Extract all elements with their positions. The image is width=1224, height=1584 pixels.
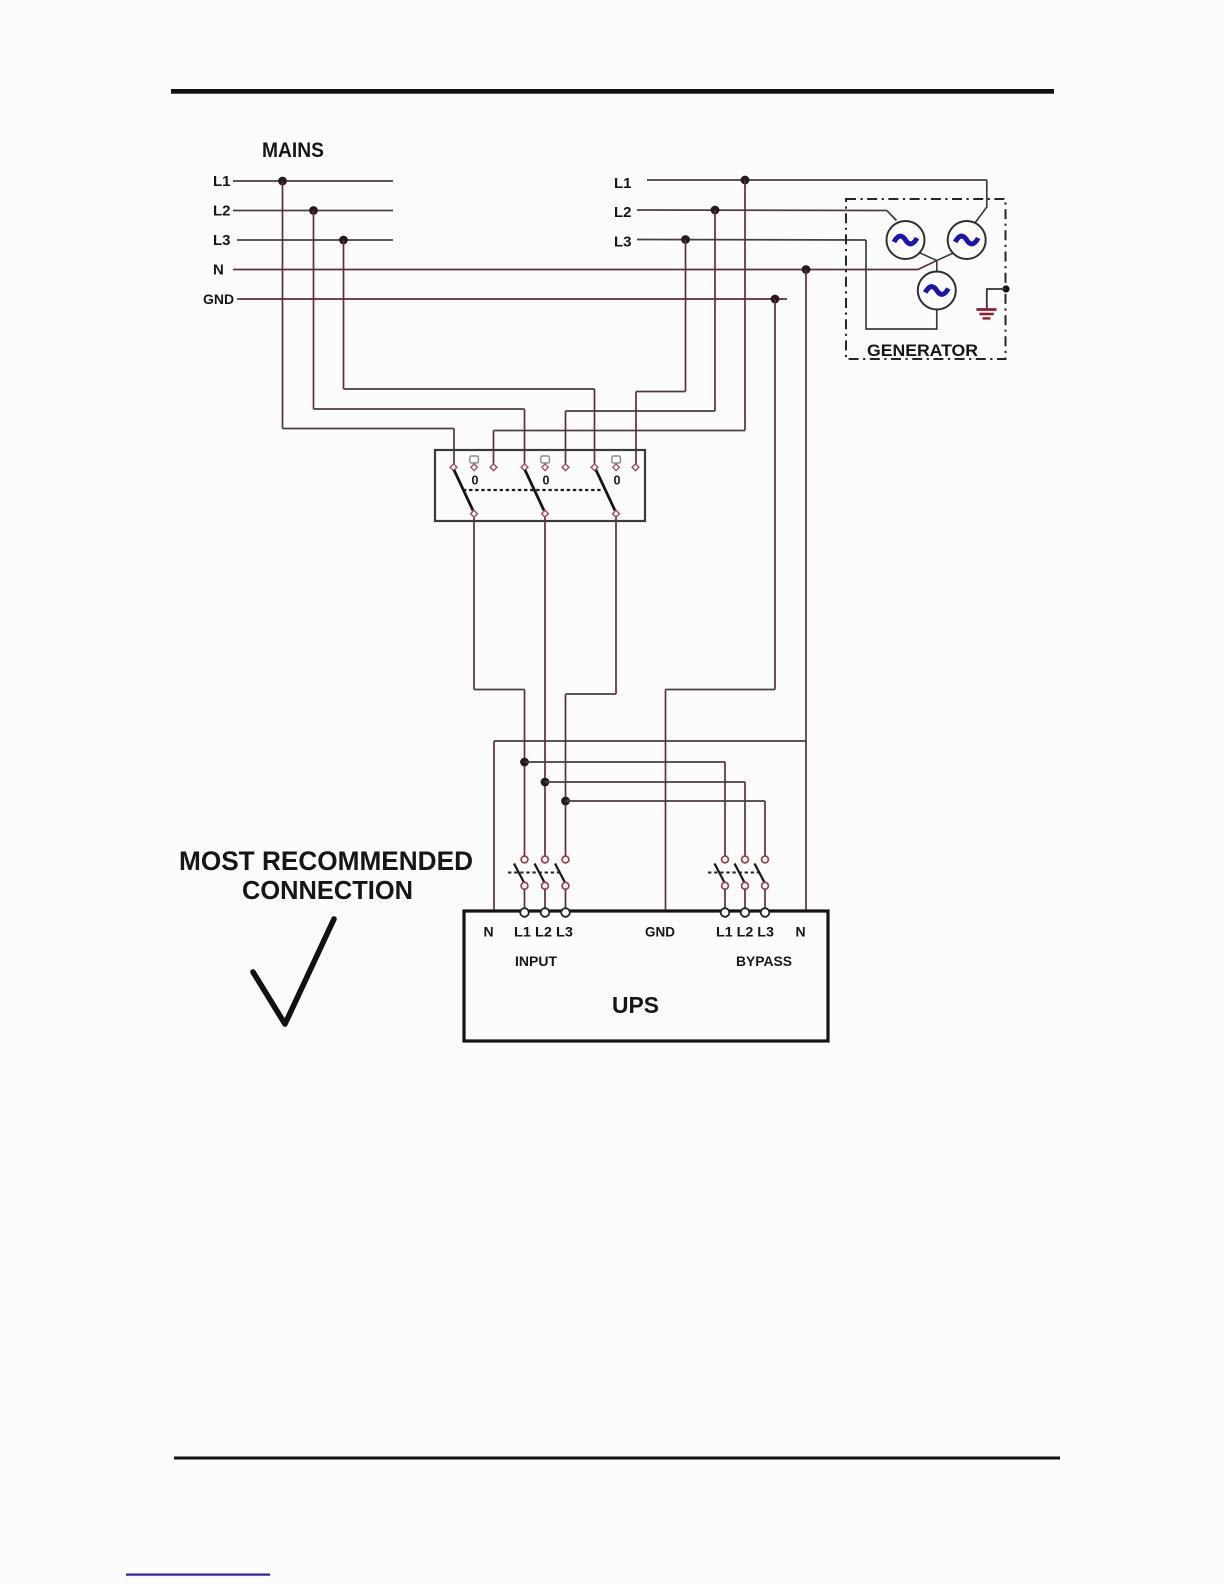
transfer switch S1 box xyxy=(435,450,645,521)
wire gen L1 horizontal xyxy=(647,179,987,181)
wire UPS input L1 drop xyxy=(524,690,526,857)
wire bypass L3 drop xyxy=(764,801,766,857)
breaker CB1 pole L3 xyxy=(562,856,569,863)
generator winding G2 xyxy=(948,221,986,259)
UPS terminal bypass L1 xyxy=(721,908,730,917)
wire gen L3 run xyxy=(636,391,686,393)
generator lead L1 xyxy=(975,180,987,224)
wire UPS input L3 drop xyxy=(565,694,567,857)
wire net GND to UPS xyxy=(665,690,667,912)
svg-text:GND: GND xyxy=(203,291,234,307)
generator lead L2 xyxy=(887,211,897,221)
wire gen L1 drop xyxy=(744,180,746,431)
switch pole 3 common terminal xyxy=(613,510,620,517)
switch pole 2 terminal mains xyxy=(521,464,528,471)
junction gen L1 xyxy=(741,176,750,185)
breaker CB1 pole L1 xyxy=(521,856,528,863)
junction mains L1 xyxy=(278,177,287,186)
switch pole 1 terminal gen xyxy=(490,464,497,471)
wire gen L3 to switch xyxy=(635,392,637,465)
junction mains L3 xyxy=(339,236,348,245)
wire net N horizontal xyxy=(233,269,918,271)
wire net GND horizontal xyxy=(237,298,787,300)
wire bypass L3 run xyxy=(566,800,766,802)
wire switch out L3 drop xyxy=(615,517,617,694)
wire switch out L1 run xyxy=(474,689,525,691)
switch pole 2 blade xyxy=(525,470,544,511)
svg-text:MOST RECOMMENDED: MOST RECOMMENDED xyxy=(179,846,473,876)
wire gen L3 horizontal xyxy=(637,239,866,242)
switch pole 3 indicator xyxy=(612,456,621,463)
junction mains L2 xyxy=(309,206,318,215)
breaker CB2 pole L1 xyxy=(722,856,729,863)
generator winding G1 xyxy=(887,221,925,259)
generator star point wires xyxy=(919,253,955,261)
wire net N run xyxy=(494,740,806,742)
junction bypass tap L2 xyxy=(541,778,550,787)
wire bypass L2 drop xyxy=(744,782,746,857)
UPS terminal input L3 xyxy=(561,908,570,917)
wire mains L3 drop xyxy=(343,240,345,389)
junction bypass tap L3 xyxy=(561,797,570,806)
wire gen L1 run xyxy=(494,430,746,432)
wire mains L2 run xyxy=(314,408,525,410)
svg-text:L3: L3 xyxy=(213,232,231,249)
generator ground node xyxy=(1002,285,1009,292)
transfer switch linkage dashed xyxy=(463,489,601,491)
junction net N xyxy=(802,265,811,274)
wire net N drop xyxy=(805,270,807,742)
checkmark xyxy=(253,919,334,1024)
wire mains L3 horizontal xyxy=(237,239,393,241)
wire mains L1 drop xyxy=(282,181,284,429)
breaker CB2 pole L3 xyxy=(762,856,769,863)
svg-text:GENERATOR: GENERATOR xyxy=(867,342,978,360)
wire gen L2 drop xyxy=(714,210,716,411)
wire net GND run xyxy=(666,689,776,691)
wire switch out L3 run xyxy=(566,693,617,695)
switch pole 2 terminal gen xyxy=(562,464,569,471)
switch pole 3 terminal mains xyxy=(591,464,598,471)
wire bypass L1 run xyxy=(525,761,726,763)
generator ground wire xyxy=(987,289,1006,308)
generator winding G3 xyxy=(918,272,956,310)
switch pole 1 terminal mains xyxy=(450,464,457,471)
UPS terminal bypass L3 xyxy=(761,908,770,917)
wire gen L2 horizontal xyxy=(637,209,887,212)
switch pole 3 blade xyxy=(596,470,615,511)
breaker CB1 input linkage dashed xyxy=(508,872,559,874)
generator lead L3 xyxy=(866,240,937,329)
wire mains L2 to switch xyxy=(524,409,526,464)
svg-text:L1 L2 L3: L1 L2 L3 xyxy=(514,924,573,940)
switch pole 1 blade xyxy=(454,470,473,511)
ground symbol xyxy=(976,308,996,311)
wire switch out L1 drop xyxy=(473,517,475,689)
wire net N to UPS right xyxy=(805,741,807,911)
wire gen L2 to switch xyxy=(565,411,567,464)
UPS box xyxy=(464,911,828,1041)
wire mains L3 run xyxy=(344,388,595,390)
breaker CB2 bypass linkage dashed xyxy=(708,872,759,874)
switch pole 3 terminal gen xyxy=(632,464,639,471)
svg-text:GND: GND xyxy=(645,924,675,940)
svg-text:0: 0 xyxy=(472,474,479,488)
svg-text:L3: L3 xyxy=(614,234,632,251)
junction gen L2 xyxy=(711,206,720,215)
wire mains L2 drop xyxy=(313,211,315,410)
wire mains L1 horizontal xyxy=(233,180,393,182)
svg-text:L2: L2 xyxy=(213,203,231,220)
wire gen L1 to switch xyxy=(493,431,495,465)
footer link underline xyxy=(126,1574,270,1576)
wire gen L3 drop xyxy=(685,240,687,392)
svg-text:BYPASS: BYPASS xyxy=(736,954,792,969)
svg-text:N: N xyxy=(484,924,494,940)
page rule top xyxy=(171,89,1054,94)
switch pole 2 common terminal xyxy=(542,510,549,517)
page rule bottom xyxy=(174,1457,1060,1460)
svg-text:L1: L1 xyxy=(614,175,632,192)
wire gen L2 run xyxy=(566,410,716,412)
svg-text:UPS: UPS xyxy=(612,992,659,1018)
breaker CB1 pole L2 xyxy=(542,856,549,863)
wire net N to UPS left xyxy=(493,741,495,911)
svg-text:N: N xyxy=(213,262,224,279)
svg-text:MAINS: MAINS xyxy=(262,139,324,162)
svg-text:CONNECTION: CONNECTION xyxy=(242,877,413,905)
junction bypass tap L1 xyxy=(520,758,529,767)
breaker CB2 pole L2 xyxy=(742,856,749,863)
wire neutral to star point xyxy=(918,261,937,270)
wire switch out L2 drop xyxy=(544,517,546,856)
svg-text:N: N xyxy=(796,924,806,940)
switch pole 1 common terminal xyxy=(471,510,478,517)
svg-text:INPUT: INPUT xyxy=(515,954,558,969)
UPS terminal bypass L2 xyxy=(741,908,750,917)
wire bypass L1 drop xyxy=(724,762,726,857)
junction net GND xyxy=(771,295,780,304)
generator enclosure dash-dot xyxy=(846,199,1006,359)
svg-text:L1: L1 xyxy=(213,173,231,190)
wire mains L3 to switch xyxy=(594,389,596,464)
svg-text:L2: L2 xyxy=(614,204,632,221)
wire bypass L2 run xyxy=(545,781,745,783)
wire net GND drop xyxy=(774,299,776,690)
wire mains L1 run xyxy=(283,428,455,430)
svg-text:L1 L2 L3: L1 L2 L3 xyxy=(716,924,774,940)
svg-text:0: 0 xyxy=(614,474,621,488)
switch pole 2 indicator xyxy=(541,456,550,463)
wire mains L1 to switch xyxy=(453,429,455,465)
wire mains L2 horizontal xyxy=(233,210,393,212)
svg-text:0: 0 xyxy=(543,474,550,488)
UPS terminal input L1 xyxy=(520,908,529,917)
junction gen L3 xyxy=(681,235,690,244)
switch pole 1 indicator xyxy=(470,456,479,463)
UPS terminal input L2 xyxy=(541,908,550,917)
